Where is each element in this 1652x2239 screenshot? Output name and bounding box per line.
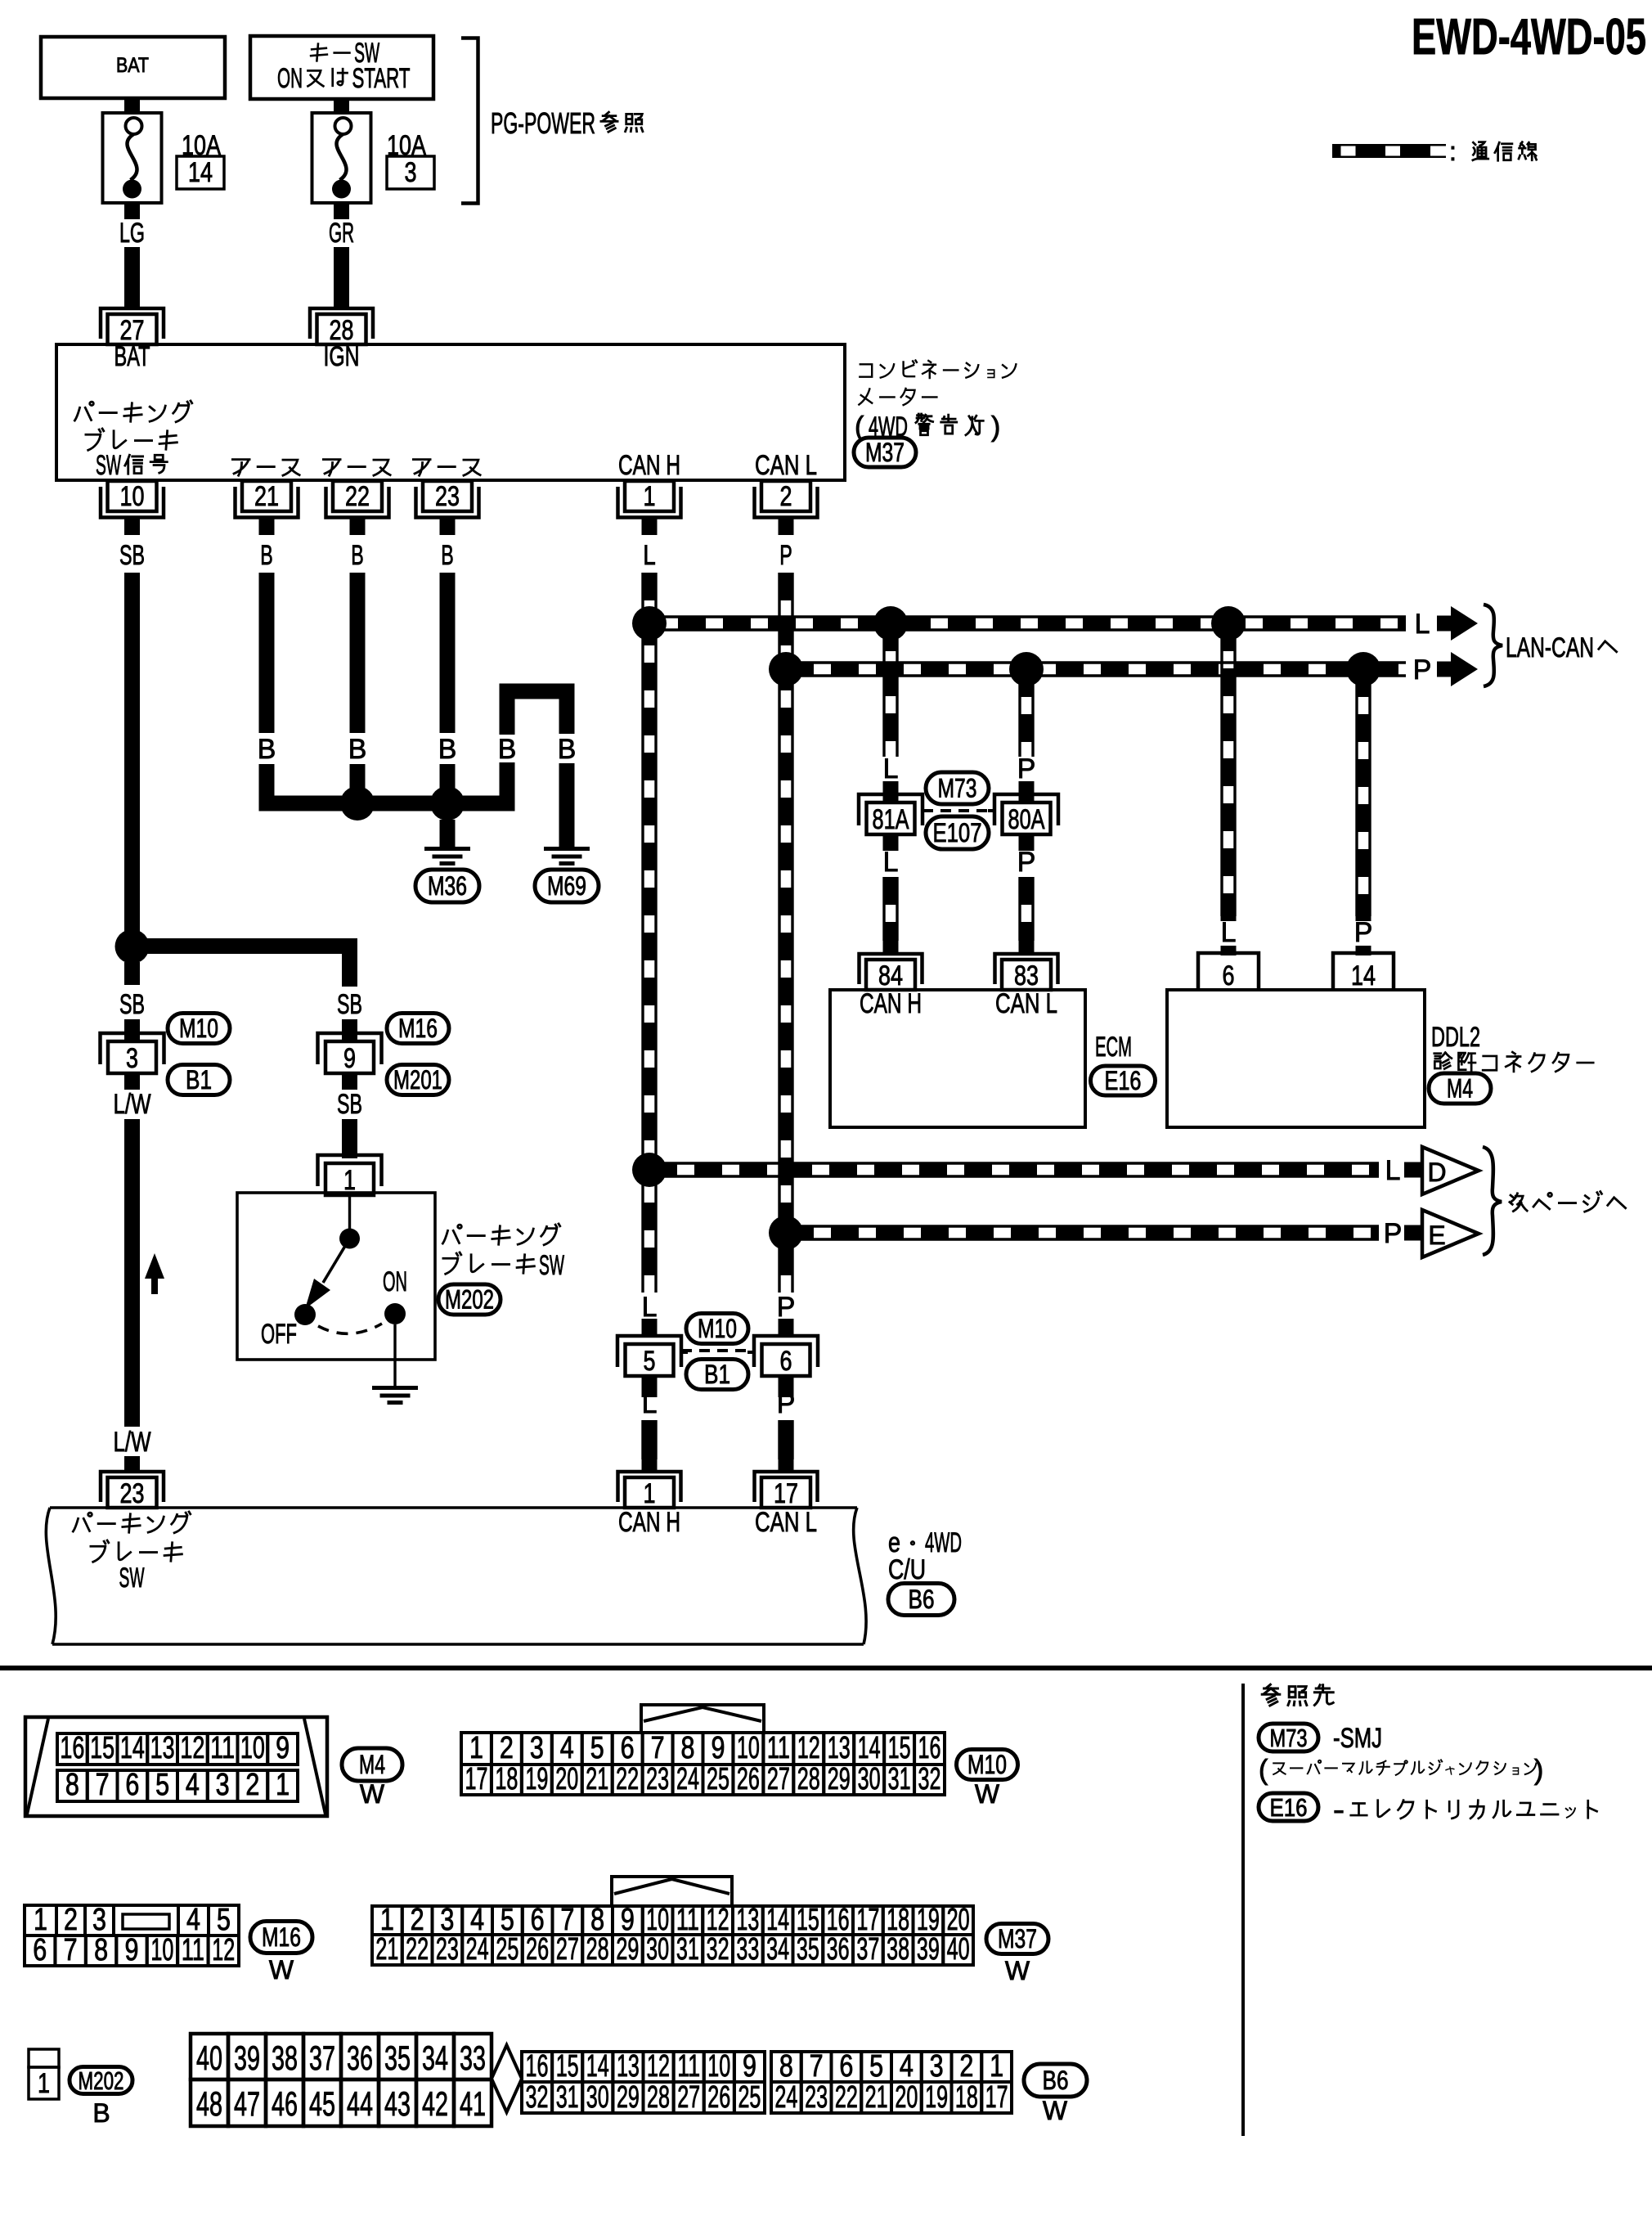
svg-text:1: 1 xyxy=(644,1478,656,1509)
svg-text:38: 38 xyxy=(272,2039,298,2077)
svg-text:B: B xyxy=(92,2098,110,2128)
svg-text:30: 30 xyxy=(858,1761,881,1796)
pin 22 meter bottom xyxy=(326,481,389,518)
svg-text:B: B xyxy=(558,734,577,765)
svg-text:-: - xyxy=(1333,1795,1344,1826)
svg-text:11: 11 xyxy=(677,2048,700,2083)
svg-text:33: 33 xyxy=(460,2039,486,2077)
label L/W upper xyxy=(114,1089,151,1120)
svg-text:W: W xyxy=(1005,1956,1030,1985)
oval M16 ref conn9 xyxy=(387,1014,449,1044)
pin 27 BAT xyxy=(101,308,164,372)
oval M4 face xyxy=(342,1748,402,1809)
svg-text:C/U: C/U xyxy=(888,1554,926,1585)
label L below 81A xyxy=(883,847,899,878)
svg-text:P: P xyxy=(1384,1218,1403,1249)
svg-text:P: P xyxy=(777,1292,796,1323)
wire SB horizontal xyxy=(147,946,350,987)
svg-text:39: 39 xyxy=(234,2039,260,2077)
svg-text:M16: M16 xyxy=(398,1014,438,1043)
switch ground line xyxy=(393,1324,396,1386)
junction dot pin23 bus xyxy=(430,786,465,821)
ECM box xyxy=(830,990,1085,1127)
switch ON contact xyxy=(384,1303,406,1324)
svg-text:CAN H: CAN H xyxy=(618,450,680,481)
svg-text:16: 16 xyxy=(918,1730,941,1765)
svg-text:P: P xyxy=(777,1388,796,1419)
svg-text:L: L xyxy=(643,540,656,571)
svg-text:17: 17 xyxy=(774,1478,798,1509)
svg-text:): ) xyxy=(991,411,1000,443)
label -electrical unit xyxy=(1333,1795,1597,1826)
label -SMJ xyxy=(1333,1723,1382,1754)
wire stub + label B under pin 23 xyxy=(441,518,454,571)
label P above 80A xyxy=(1017,753,1036,785)
wire stub + label L under pin 1 xyxy=(643,518,656,571)
svg-text:(: ( xyxy=(1259,1755,1268,1786)
wire stub to ground M36 xyxy=(440,820,456,847)
svg-text:22: 22 xyxy=(406,1931,429,1966)
label ECM xyxy=(1095,1032,1132,1063)
svg-text:42: 42 xyxy=(422,2085,448,2123)
pin 6 DDL2 xyxy=(1198,953,1259,991)
label CAN H top xyxy=(618,450,680,481)
svg-text:L: L xyxy=(642,1388,658,1419)
svg-text:38: 38 xyxy=(887,1931,909,1966)
svg-text:P: P xyxy=(1017,847,1036,878)
svg-text:25: 25 xyxy=(496,1931,518,1966)
svg-text:5: 5 xyxy=(869,2048,883,2083)
svg-text:M4: M4 xyxy=(359,1750,385,1779)
svg-text:37: 37 xyxy=(856,1931,879,1966)
svg-text:M202: M202 xyxy=(445,1285,494,1315)
connector 9 (M16/M201) xyxy=(318,1033,382,1074)
svg-text:81A: 81A xyxy=(873,804,909,835)
svg-text:CAN H: CAN H xyxy=(860,988,922,1019)
svg-text:P: P xyxy=(1017,753,1036,785)
junction dot Pbus/80A branch xyxy=(1009,652,1044,686)
wire LG xyxy=(119,203,145,308)
DDL2 box xyxy=(1167,990,1425,1127)
brace LAN-CAN xyxy=(1484,605,1502,686)
svg-text:28: 28 xyxy=(586,1931,609,1966)
svg-text:D: D xyxy=(1427,1158,1446,1187)
svg-text:B6: B6 xyxy=(1043,2066,1069,2095)
label L below conn5 xyxy=(642,1388,658,1419)
oval B6 ref xyxy=(888,1584,954,1616)
svg-text:4: 4 xyxy=(186,1902,200,1936)
pin 23 meter bottom xyxy=(416,481,479,518)
ground bus xyxy=(333,796,515,812)
power source key SW ON/START xyxy=(250,36,433,99)
oval E107 xyxy=(926,816,989,849)
oval M202 face xyxy=(70,2067,132,2129)
svg-text:11: 11 xyxy=(182,1932,204,1967)
svg-text:2: 2 xyxy=(500,1730,514,1765)
power source BAT xyxy=(41,37,225,98)
svg-text:12: 12 xyxy=(797,1730,820,1765)
connector face M10 xyxy=(461,1705,945,1796)
wire stub + label P under pin 2 xyxy=(779,518,792,571)
svg-text:23: 23 xyxy=(435,481,460,512)
title EWD-4WD-05 xyxy=(1412,9,1646,65)
svg-text:28: 28 xyxy=(797,1761,820,1796)
svg-text:M201: M201 xyxy=(393,1065,442,1095)
svg-text:2: 2 xyxy=(959,2048,973,2083)
comm wire conn5 to pin1 xyxy=(643,1420,656,1472)
label parking brake SW (switch) xyxy=(442,1224,564,1281)
svg-text:41: 41 xyxy=(460,2085,486,2123)
svg-text:18: 18 xyxy=(955,2079,978,2114)
oval M73 ref list xyxy=(1259,1724,1318,1752)
svg-text:32: 32 xyxy=(526,2079,549,2114)
wire stub into 81A xyxy=(883,781,899,806)
label L/W lower xyxy=(114,1427,151,1458)
oval M10 face xyxy=(957,1750,1018,1810)
svg-text:GR: GR xyxy=(329,218,354,249)
wire stub below 81A xyxy=(883,834,899,851)
svg-text:SW: SW xyxy=(539,1250,564,1281)
label P at E xyxy=(1384,1218,1403,1249)
label L at LAN-CAN arrow xyxy=(1415,609,1430,640)
svg-text:M16: M16 xyxy=(262,1922,301,1952)
comm wire CAN L vertical xyxy=(779,573,792,1309)
svg-text:CAN L: CAN L xyxy=(995,988,1057,1019)
label parking brake SW (C/U) xyxy=(73,1512,190,1594)
svg-text:P: P xyxy=(1413,654,1432,686)
svg-text:13: 13 xyxy=(828,1730,851,1765)
svg-text:9: 9 xyxy=(711,1730,725,1765)
svg-text:L: L xyxy=(883,753,899,785)
switch common line xyxy=(348,1195,351,1229)
svg-text:6: 6 xyxy=(125,1767,139,1801)
parking brake switch box M202 xyxy=(237,1193,435,1360)
pin 84 ECM xyxy=(860,954,923,991)
comm line D xyxy=(649,1163,1379,1176)
svg-text:W: W xyxy=(975,1779,1000,1809)
svg-text:1: 1 xyxy=(469,1730,483,1765)
switch pivot dot xyxy=(339,1229,360,1249)
svg-text:12: 12 xyxy=(647,2048,670,2083)
switch arm arrow xyxy=(305,1239,350,1309)
junction dot Lbus/81A branch xyxy=(873,606,908,641)
svg-text:18: 18 xyxy=(495,1761,518,1796)
svg-text:5: 5 xyxy=(644,1346,656,1377)
svg-text:7: 7 xyxy=(651,1730,665,1765)
label P below 80A xyxy=(1017,847,1036,878)
svg-text:M202: M202 xyxy=(79,2068,124,2095)
svg-text:20: 20 xyxy=(555,1761,578,1796)
svg-text:32: 32 xyxy=(918,1761,941,1796)
svg-text:34: 34 xyxy=(422,2039,448,2077)
svg-text:21: 21 xyxy=(586,1761,608,1796)
svg-text:5: 5 xyxy=(155,1767,169,1801)
triangle D xyxy=(1422,1147,1479,1194)
svg-text:B: B xyxy=(441,540,454,571)
svg-text:): ) xyxy=(1534,1755,1543,1786)
label sanshou-saki xyxy=(1262,1684,1333,1706)
oval M202 ref xyxy=(438,1284,501,1315)
svg-text:3: 3 xyxy=(930,2048,944,2083)
label L at D xyxy=(1385,1155,1401,1186)
svg-text:1: 1 xyxy=(38,2068,50,2099)
svg-text:31: 31 xyxy=(888,1761,911,1796)
svg-text:13: 13 xyxy=(150,1730,175,1765)
svg-text:6: 6 xyxy=(33,1932,47,1967)
svg-text:24: 24 xyxy=(676,1761,699,1796)
comm wire CAN H vertical xyxy=(643,573,656,1309)
svg-text:M36: M36 xyxy=(428,871,467,901)
wire stub below conn6 xyxy=(779,1374,794,1397)
wire stub into pin23 xyxy=(124,1456,140,1472)
svg-text:8: 8 xyxy=(65,1767,79,1801)
tail E xyxy=(1404,1225,1422,1241)
comm wire branch P to 80A xyxy=(1020,669,1033,757)
wire stub below conn5 xyxy=(642,1374,658,1397)
svg-text:4: 4 xyxy=(186,1767,200,1801)
svg-text:31: 31 xyxy=(676,1931,699,1966)
label P above pin14 xyxy=(1354,917,1373,948)
svg-text:3: 3 xyxy=(216,1767,230,1801)
oval M10 ref conn56 xyxy=(686,1314,748,1344)
wire stub into conn5 xyxy=(642,1319,658,1337)
oval M201 ref conn9 xyxy=(387,1065,449,1095)
svg-text:L/W: L/W xyxy=(114,1089,151,1120)
wire stub into conn9 xyxy=(342,1019,357,1044)
wire L/W long xyxy=(124,1119,140,1427)
svg-text:23: 23 xyxy=(805,2079,828,2114)
svg-text:B: B xyxy=(351,540,364,571)
svg-text:L: L xyxy=(1385,1155,1401,1186)
svg-text:21: 21 xyxy=(375,1931,398,1966)
junction dot SB xyxy=(115,929,150,964)
label P below conn6 xyxy=(777,1388,796,1419)
label CAN H (ECM) xyxy=(860,988,922,1019)
svg-text:24: 24 xyxy=(466,1931,489,1966)
svg-text:19: 19 xyxy=(925,2079,948,2114)
svg-text:29: 29 xyxy=(616,1931,639,1966)
junction dot CANL/Pbus xyxy=(769,652,803,686)
svg-text:B: B xyxy=(258,734,276,765)
oval B6 face xyxy=(1024,2064,1087,2125)
svg-text:B: B xyxy=(438,734,457,765)
label earth x3 xyxy=(232,460,480,476)
svg-text:W: W xyxy=(1043,2096,1068,2125)
svg-text:L: L xyxy=(1221,917,1237,948)
connector face M16 xyxy=(25,1902,239,1967)
svg-text:B: B xyxy=(260,540,273,571)
tail D xyxy=(1404,1162,1422,1178)
oval M4 ref xyxy=(1429,1073,1491,1104)
label SB conn3 xyxy=(119,989,145,1020)
e4WD C/U box xyxy=(46,1508,866,1644)
svg-text:3: 3 xyxy=(530,1730,544,1765)
svg-text:25: 25 xyxy=(707,1761,729,1796)
wire stub + label SB under pin 10 xyxy=(119,518,145,571)
svg-text:7: 7 xyxy=(64,1932,78,1967)
svg-text:SB: SB xyxy=(119,989,145,1020)
svg-text:14: 14 xyxy=(1351,960,1376,991)
label ON xyxy=(383,1266,407,1297)
svg-text:24: 24 xyxy=(774,2079,797,2114)
label SB conn9 xyxy=(337,989,362,1020)
comm line E xyxy=(786,1226,1379,1239)
svg-text:26: 26 xyxy=(737,1761,760,1796)
svg-text:48: 48 xyxy=(196,2085,222,2123)
junction dot pin22 bus xyxy=(340,786,375,821)
oval M16 face xyxy=(250,1922,312,1985)
wire into switch pin1 xyxy=(342,1119,357,1158)
svg-text:27: 27 xyxy=(556,1931,579,1966)
wire SB from pin10 xyxy=(124,573,140,933)
label e-4WD C/U xyxy=(888,1527,962,1585)
arrow to LAN-CAN (L) xyxy=(1437,606,1478,641)
svg-text:22: 22 xyxy=(616,1761,639,1796)
svg-text:26: 26 xyxy=(526,1931,549,1966)
svg-text:M10: M10 xyxy=(179,1014,218,1043)
svg-text:33: 33 xyxy=(736,1931,759,1966)
svg-text:6: 6 xyxy=(839,2048,853,2083)
svg-text:22: 22 xyxy=(345,481,370,512)
svg-text:47: 47 xyxy=(234,2085,260,2123)
svg-text:21: 21 xyxy=(865,2079,888,2114)
svg-text:19: 19 xyxy=(525,1761,548,1796)
svg-text:27: 27 xyxy=(677,2079,700,2114)
svg-text:L: L xyxy=(1415,609,1430,640)
svg-text:10: 10 xyxy=(707,2048,730,2083)
svg-text:7: 7 xyxy=(810,2048,824,2083)
dashed mate line M10/B1 xyxy=(681,1349,754,1352)
label CAN H (C/U) xyxy=(618,1507,680,1538)
svg-text:B6: B6 xyxy=(909,1585,935,1614)
comm wire branch L to 81A xyxy=(884,623,897,757)
svg-text:1: 1 xyxy=(990,2048,1003,2083)
svg-text:23: 23 xyxy=(436,1931,459,1966)
svg-text:17: 17 xyxy=(465,1761,487,1796)
svg-text:START: START xyxy=(352,63,410,94)
svg-text:EWD-4WD-05: EWD-4WD-05 xyxy=(1412,9,1646,65)
svg-text:17: 17 xyxy=(985,2079,1008,2114)
triangle E xyxy=(1422,1210,1479,1257)
svg-text:43: 43 xyxy=(384,2085,411,2123)
reference bracket PG-POWER xyxy=(461,38,643,204)
arrow to LAN-CAN (P) xyxy=(1437,652,1478,686)
label L above conn5 xyxy=(640,1292,659,1323)
svg-text:25: 25 xyxy=(738,2079,761,2114)
svg-text:ON: ON xyxy=(383,1266,407,1297)
svg-text:28: 28 xyxy=(647,2079,670,2114)
wire stub + label B under pin 22 xyxy=(351,518,364,571)
svg-text:B: B xyxy=(348,734,367,765)
svg-text:M37: M37 xyxy=(998,1924,1037,1954)
svg-text:16: 16 xyxy=(60,1730,84,1765)
pin 83 ECM xyxy=(995,954,1058,991)
svg-text:9: 9 xyxy=(343,1043,356,1074)
connector face B6 xyxy=(191,2034,1012,2126)
svg-text:ECM: ECM xyxy=(1095,1032,1132,1063)
svg-text:84: 84 xyxy=(878,960,903,991)
svg-text:SW: SW xyxy=(96,450,121,481)
svg-text:P: P xyxy=(1354,917,1373,948)
label DDL2 xyxy=(1431,1022,1480,1053)
comm bus P (LAN-CAN) xyxy=(786,663,1406,676)
svg-text:PG-POWER: PG-POWER xyxy=(491,107,595,140)
oval M73 xyxy=(926,772,989,804)
label OFF xyxy=(261,1319,297,1350)
svg-text:20: 20 xyxy=(895,2079,918,2114)
svg-text:4WD: 4WD xyxy=(925,1527,962,1558)
wire stub into conn3 xyxy=(124,1019,140,1044)
svg-text:SB: SB xyxy=(337,989,362,1020)
wire stub into conn6 xyxy=(779,1319,794,1337)
junction dot CANH/D xyxy=(632,1153,667,1187)
label shindan connector xyxy=(1434,1052,1593,1072)
svg-text:80A: 80A xyxy=(1008,804,1045,835)
svg-text:14: 14 xyxy=(858,1730,881,1765)
svg-text:4: 4 xyxy=(900,2048,914,2083)
svg-text:35: 35 xyxy=(384,2039,411,2077)
svg-text:15: 15 xyxy=(90,1730,114,1765)
pin 17 C/U xyxy=(755,1472,818,1509)
oval M37 face xyxy=(986,1924,1048,1986)
svg-text:CAN H: CAN H xyxy=(618,1507,680,1538)
ground M69 xyxy=(535,849,599,903)
oval E16 xyxy=(1091,1066,1156,1095)
svg-text:M73: M73 xyxy=(1270,1725,1308,1752)
svg-text:M69: M69 xyxy=(547,871,586,901)
pin 21 meter bottom xyxy=(236,481,299,518)
svg-text:3: 3 xyxy=(92,1902,106,1936)
dashed mate line M73/E107 xyxy=(923,809,994,812)
separator line xyxy=(0,1666,1652,1670)
wire B from pin22 xyxy=(348,573,367,803)
comm wire 80A to pin83 xyxy=(1020,877,1033,954)
svg-text:5: 5 xyxy=(590,1730,604,1765)
wire B from pin21 xyxy=(258,573,334,803)
svg-text:DDL2: DDL2 xyxy=(1431,1022,1480,1053)
svg-text:8: 8 xyxy=(681,1730,695,1765)
junction dot Pbus/DDL pin14 branch xyxy=(1346,652,1380,686)
svg-text:L/W: L/W xyxy=(114,1427,151,1458)
svg-text:W: W xyxy=(269,1955,294,1985)
svg-text:1: 1 xyxy=(34,1902,47,1936)
connector face M4 xyxy=(25,1717,327,1816)
hook wire B right leg lower xyxy=(559,763,575,847)
svg-text:2: 2 xyxy=(64,1902,78,1936)
comm wire branch P to pin14 xyxy=(1357,669,1370,921)
pin 1 meter bottom xyxy=(618,481,681,518)
pin 1 C/U xyxy=(618,1472,681,1509)
svg-text:30: 30 xyxy=(646,1931,669,1966)
oval B1 ref conn3 xyxy=(168,1065,230,1095)
svg-text:5: 5 xyxy=(217,1902,231,1936)
wire stub into 80A xyxy=(1019,781,1035,806)
svg-text:E16: E16 xyxy=(1270,1795,1308,1822)
svg-text:8: 8 xyxy=(94,1932,108,1967)
svg-text:M73: M73 xyxy=(938,774,977,803)
junction dot CANH/Lbus xyxy=(632,606,667,641)
svg-text:B1: B1 xyxy=(704,1360,730,1389)
svg-text:3: 3 xyxy=(405,157,417,188)
svg-text:37: 37 xyxy=(309,2039,335,2077)
svg-text:ON: ON xyxy=(277,63,303,94)
wire B from pin23 xyxy=(438,573,457,803)
svg-text:22: 22 xyxy=(835,2079,858,2114)
meter annotation M37 xyxy=(854,360,1016,467)
hook wire B xyxy=(498,691,577,811)
svg-text:10: 10 xyxy=(240,1730,265,1765)
svg-text:29: 29 xyxy=(617,2079,640,2114)
